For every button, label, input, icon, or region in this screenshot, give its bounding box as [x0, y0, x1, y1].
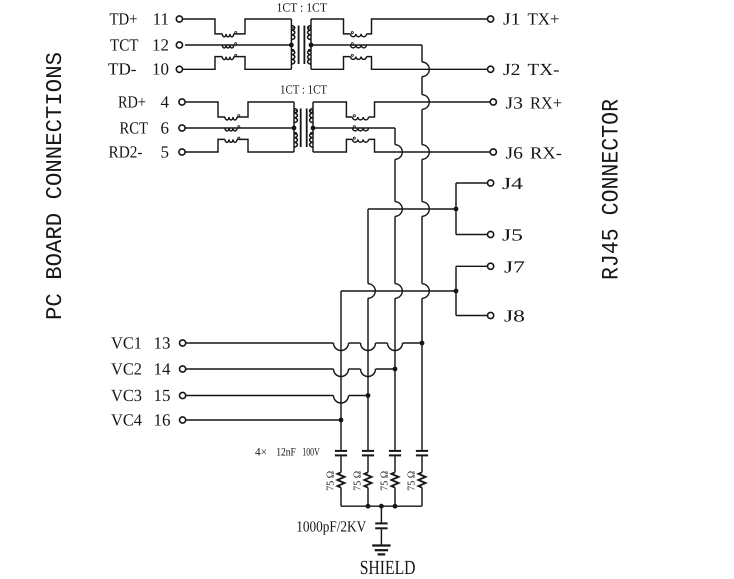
wire J4-J5 bracket: [455, 183, 457, 235]
wire TD+ to choke: [183, 19, 223, 34]
label 75ohm R1: [325, 471, 336, 491]
wire ground rail: [341, 505, 422, 507]
svg-text:TX-: TX-: [528, 60, 560, 79]
choke L2 winding c: [351, 54, 367, 59]
svg-text:1000pF/2KV: 1000pF/2KV: [296, 519, 367, 536]
junction rail-bus2: [366, 504, 371, 509]
terminal J2: [488, 66, 494, 72]
terminal VC2 pin 14: [180, 366, 186, 372]
wire choke to T2 primary bottom: [237, 139, 294, 152]
choke L4 winding a: [353, 115, 369, 120]
pin label J5: [502, 226, 523, 245]
svg-text:VC3: VC3: [111, 386, 142, 405]
capacitor C4 12nF: [416, 451, 428, 456]
capacitor C1 12nF: [335, 451, 347, 456]
resistor R4 75ohm: [418, 472, 425, 487]
junction rail-stem: [379, 504, 384, 509]
terminal RD2- pin 5: [179, 149, 185, 155]
wire rail to C5: [380, 506, 382, 523]
junction VC1-bus4: [420, 341, 425, 346]
wire choke to T1 primary top: [234, 19, 292, 34]
svg-text:J2: J2: [503, 60, 521, 79]
wire C5 to ground: [380, 529, 382, 545]
label 75ohm R2: [352, 471, 363, 491]
choke L1 winding c: [222, 54, 236, 59]
pin label VC4 16: [111, 410, 171, 429]
capacitor C5 1000pF/2KV: [375, 523, 387, 528]
pin label J8: [504, 307, 525, 326]
wire cap C4 to resistor R4: [421, 456, 423, 472]
svg-text:100V: 100V: [302, 447, 320, 459]
wire TCT to T1 primary tap: [185, 44, 291, 46]
pin label TCT 12: [110, 35, 169, 54]
wire TD- to choke: [183, 57, 223, 70]
terminal VC3 pin 15: [180, 392, 186, 398]
svg-text:J6: J6: [506, 143, 524, 162]
choke L1 winding a: [222, 32, 236, 37]
svg-text:13: 13: [154, 333, 171, 352]
pin label RCT 6: [120, 118, 170, 137]
resistor R3 75ohm: [391, 472, 398, 487]
svg-text:RD+: RD+: [118, 92, 146, 111]
wire J7/J8 to bus1: [341, 290, 456, 292]
svg-text:1CT : 1CT: 1CT : 1CT: [277, 1, 328, 15]
wire choke to J1: [367, 19, 488, 34]
resistor R2 75ohm: [364, 472, 371, 487]
label 75ohm R3: [379, 471, 390, 491]
terminal J6: [490, 149, 496, 155]
terminal J3: [490, 99, 496, 105]
label PC BOARD CONNECTIONS: [42, 52, 68, 320]
terminal J1: [488, 16, 494, 22]
wire RD+ to choke: [185, 102, 225, 117]
svg-text:J4: J4: [502, 174, 524, 193]
terminal VC4 pin 16: [180, 417, 186, 423]
wire T2 secondary bottom to choke: [313, 139, 353, 152]
wire cap C1 to resistor R1: [340, 456, 342, 472]
svg-text:J7: J7: [504, 257, 526, 276]
svg-text:12nF: 12nF: [276, 447, 296, 459]
junction T2 primary center tap: [292, 126, 297, 131]
capacitor C2 12nF: [362, 451, 374, 456]
wire VC4 to bus1: [186, 419, 341, 421]
wire J4 stub: [456, 182, 487, 184]
choke L3 winding a: [225, 115, 240, 120]
choke L4 winding c: [353, 137, 369, 142]
wire T1 secondary bottom to choke: [311, 57, 351, 70]
choke L4 winding b: [353, 126, 369, 131]
wire resistor R2 to rail: [367, 488, 369, 507]
junction T2 secondary center tap: [311, 126, 316, 131]
junction VC2-bus3: [393, 367, 398, 372]
svg-text:14: 14: [154, 359, 172, 378]
svg-text:75 Ω: 75 Ω: [379, 471, 390, 491]
wire T2 secondary tap to bus: [313, 127, 395, 129]
wire RCT to T2 primary tap: [185, 127, 294, 129]
terminal RD+ pin 4: [179, 99, 185, 105]
choke L3 winding c: [225, 137, 240, 142]
pin label TD- 10: [108, 60, 169, 79]
wire choke to J3: [369, 102, 490, 117]
transformer T2 secondary winding: [310, 102, 313, 152]
svg-text:75 Ω: 75 Ω: [406, 471, 417, 491]
transformer T1 primary winding: [291, 19, 294, 69]
svg-text:VC2: VC2: [111, 359, 142, 378]
terminal J4: [488, 180, 494, 186]
pin label VC1 13: [111, 333, 171, 352]
svg-text:TX+: TX+: [528, 10, 560, 29]
ground SHIELD symbol: [372, 546, 390, 555]
svg-text:PC BOARD CONNECTIONS: PC BOARD CONNECTIONS: [42, 52, 68, 320]
pin label J1 TX+: [503, 10, 560, 29]
svg-text:RX+: RX+: [530, 93, 562, 112]
capacitor C3 12nF: [389, 451, 401, 456]
svg-text:4: 4: [161, 92, 170, 111]
choke L1 winding b: [222, 43, 236, 48]
svg-text:75 Ω: 75 Ω: [352, 471, 363, 491]
pin label VC3 15: [111, 386, 171, 405]
wire choke to J2: [367, 57, 488, 70]
svg-text:RCT: RCT: [120, 118, 149, 137]
wire VC2 to bus3: [186, 369, 395, 377]
svg-text:12: 12: [152, 35, 169, 54]
svg-text:J5: J5: [502, 226, 523, 245]
svg-text:J1: J1: [503, 10, 521, 29]
label 1000pF/2KV: [296, 519, 367, 536]
wire J7-J8 bracket: [455, 266, 457, 315]
label RJ45 CONNECTOR: [599, 99, 626, 280]
svg-text:6: 6: [161, 118, 170, 137]
svg-text:SHIELD: SHIELD: [360, 557, 416, 579]
wire T2 secondary top to choke: [313, 102, 353, 117]
svg-text:TD-: TD-: [108, 60, 137, 79]
transformer T1 secondary winding: [308, 19, 311, 69]
junction rail-bus3: [393, 504, 398, 509]
pin label VC2 14: [111, 359, 171, 378]
terminal TD- pin 10: [176, 66, 182, 72]
label 1CT : 1CT (T2): [280, 82, 327, 96]
label 1CT : 1CT (T1): [277, 1, 328, 15]
svg-text:11: 11: [153, 9, 169, 28]
wire J8 stub: [456, 315, 487, 317]
pin label RD+ 4: [118, 92, 170, 111]
choke L3 winding b: [225, 126, 240, 131]
junction J7/J8: [454, 289, 459, 294]
svg-text:TCT: TCT: [110, 35, 139, 54]
wire RD2- to choke: [185, 139, 225, 152]
terminal VC1 pin 13: [180, 340, 186, 346]
label 75ohm R4: [406, 471, 417, 491]
svg-text:VC4: VC4: [111, 410, 142, 429]
wire cap C3 to resistor R3: [394, 456, 396, 472]
wire VC1 to bus4: [186, 343, 422, 351]
resistor R1 75ohm: [337, 472, 344, 487]
wire choke to T2 primary top: [237, 102, 294, 117]
junction T1 primary center tap: [289, 43, 294, 48]
wire cap C2 to resistor R2: [367, 456, 369, 472]
svg-text:J8: J8: [504, 307, 525, 326]
terminal J8: [488, 312, 494, 318]
svg-text:4×: 4×: [255, 447, 267, 459]
pin label J2 TX-: [503, 60, 560, 79]
wire bus1 vertical: [340, 291, 342, 451]
terminal TD+ pin 11: [176, 16, 182, 22]
wire bus RX-tap vertical: [395, 128, 402, 451]
svg-text:5: 5: [161, 142, 170, 161]
svg-text:RX-: RX-: [530, 143, 562, 162]
wire T1 secondary tap to bus: [311, 44, 422, 46]
svg-text:15: 15: [154, 386, 171, 405]
wire J5 stub: [456, 234, 487, 236]
wire resistor R3 to rail: [394, 488, 396, 507]
pin label J4: [502, 174, 524, 193]
wire choke to J6: [369, 139, 490, 152]
pin label J6 RX-: [506, 143, 563, 162]
junction VC4-bus1: [339, 418, 344, 423]
svg-text:J3: J3: [506, 93, 524, 112]
svg-text:RJ45 CONNECTOR: RJ45 CONNECTOR: [599, 99, 626, 280]
choke L2 winding b: [351, 43, 367, 48]
wire choke to T1 primary bottom: [234, 57, 292, 70]
wire T1 secondary top to choke: [311, 19, 351, 34]
transformer T2 core: [301, 109, 307, 148]
pin label J3 RX+: [506, 93, 563, 112]
junction T1 secondary center tap: [309, 43, 314, 48]
svg-text:RD2-: RD2-: [109, 142, 143, 161]
wire bus2 vertical: [368, 209, 375, 451]
pin label RD2- 5: [109, 142, 170, 161]
label 4x 12nF 100V: [255, 447, 320, 459]
terminal J7: [488, 263, 494, 269]
junction VC3-bus2: [366, 393, 371, 398]
svg-text:16: 16: [154, 410, 171, 429]
wire J7 stub: [456, 265, 487, 267]
choke L2 winding a: [351, 32, 367, 37]
wire resistor R1 to rail: [340, 488, 342, 507]
terminal J5: [488, 231, 494, 237]
wire VC3 to bus2: [186, 396, 368, 404]
wire resistor R4 to rail: [421, 488, 423, 507]
wire J4/J5 to bus2: [368, 208, 456, 210]
pin label J7: [504, 257, 526, 276]
pin label TD+ 11: [110, 9, 170, 28]
svg-text:75 Ω: 75 Ω: [325, 471, 336, 491]
label SHIELD: [360, 557, 416, 579]
transformer T1 core: [299, 26, 305, 65]
terminal RCT pin 6: [179, 125, 185, 131]
wire bus TX-tap vertical: [422, 45, 429, 451]
svg-text:10: 10: [152, 60, 169, 79]
terminal TCT pin 12: [176, 42, 182, 48]
transformer T2 primary winding: [294, 102, 297, 152]
svg-text:VC1: VC1: [111, 333, 142, 352]
svg-text:1CT : 1CT: 1CT : 1CT: [280, 82, 327, 96]
junction J4/J5: [454, 207, 459, 212]
svg-text:TD+: TD+: [110, 9, 138, 28]
